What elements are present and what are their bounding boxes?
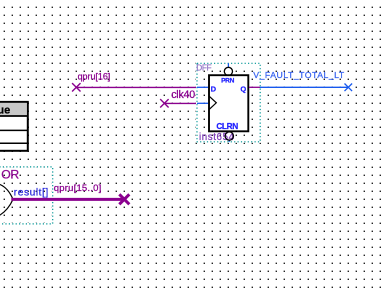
clock pin stub <box>197 102 208 104</box>
svg-text:DFF: DFF <box>196 63 211 73</box>
OR gate output arc <box>0 184 13 216</box>
svg-text:inst654: inst654 <box>199 132 235 143</box>
header separator <box>0 115 28 117</box>
svg-text:result[]: result[] <box>14 188 49 199</box>
PRN pin stub <box>227 63 229 67</box>
CLRN bubble outline <box>225 132 233 140</box>
D pin stub <box>197 86 208 88</box>
bus wire qpru[15..0] <box>11 198 124 201</box>
row line 2 <box>0 142 28 144</box>
DFF body <box>209 75 248 131</box>
selection box DFF <box>197 63 260 142</box>
svg-text:OR: OR <box>1 168 19 182</box>
svg-text:CLRN: CLRN <box>216 122 238 131</box>
PRN bubble <box>224 67 232 75</box>
svg-text:clk40: clk40 <box>171 89 195 101</box>
output wire V_FAULT_TOTAL_LT <box>253 70 352 91</box>
Q output pin stub <box>249 86 260 88</box>
svg-text:qpru[16]: qpru[16] <box>78 72 111 82</box>
selection box OR <box>0 167 53 224</box>
CLRN pin stub <box>228 140 230 142</box>
wire qpru[16] <box>72 72 197 92</box>
header row fill <box>0 103 27 116</box>
svg-text:ue: ue <box>0 105 10 117</box>
bus open-end X <box>119 194 129 204</box>
DFF instance <box>196 63 260 143</box>
open-end X clk40 <box>160 99 168 107</box>
row line 1 <box>0 129 28 131</box>
svg-text:Q: Q <box>240 85 246 94</box>
open-end X qpru[16] <box>72 83 80 91</box>
wire horizontal <box>260 86 348 88</box>
open-end X output <box>345 84 353 92</box>
wire clk40 <box>160 89 197 108</box>
CLRN bubble backing <box>225 132 233 140</box>
wire qpru[16] horizontal <box>76 86 197 88</box>
svg-text:qpru[15..0]: qpru[15..0] <box>54 183 102 194</box>
svg-text:PRN: PRN <box>221 78 235 85</box>
OR gate (clipped at left edge) <box>0 167 129 224</box>
svg-text:D: D <box>211 84 217 93</box>
clock triangle <box>209 96 216 109</box>
table body <box>0 102 28 151</box>
parameter table (clipped at left edge) <box>0 102 28 151</box>
wire clk40 horizontal <box>164 102 197 104</box>
svg-text:V_FAULT_TOTAL_LT: V_FAULT_TOTAL_LT <box>253 70 345 80</box>
